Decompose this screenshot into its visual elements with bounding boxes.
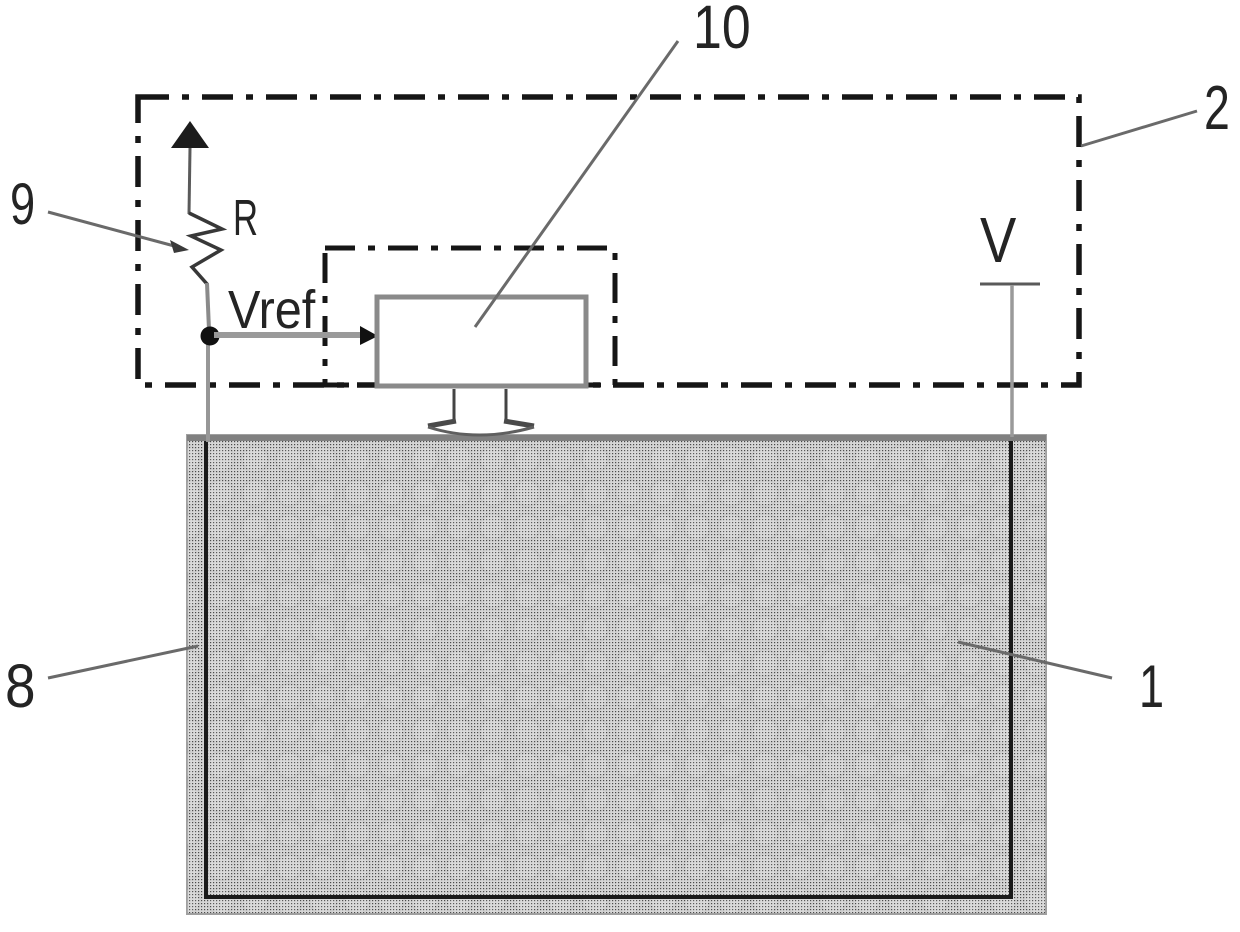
block 10 (driver box) (377, 297, 586, 386)
svg-text:10: 10 (693, 0, 751, 61)
dash-dot enclosure 2 (outer) (138, 97, 1079, 385)
label 10 with leader (475, 0, 751, 327)
svg-text:9: 9 (10, 173, 35, 238)
resistor R (189, 213, 222, 330)
label 8 with leader to panel edge (5, 646, 198, 721)
label 2 with leader (1081, 72, 1230, 146)
svg-text:2: 2 (1204, 72, 1230, 142)
node (junction dot) (201, 327, 220, 346)
up arrow (supply) (171, 121, 209, 214)
substrate panel 1 (halftone body) (187, 435, 1046, 914)
svg-text:8: 8 (5, 652, 36, 720)
wire: node down to panel electrode (206, 336, 210, 442)
svg-text:1: 1 (1139, 654, 1164, 721)
wire Vref with arrowhead into block 10 (214, 326, 378, 345)
label 9 with leader arrow to resistor (10, 173, 189, 253)
svg-text:Vref: Vref (228, 279, 316, 340)
electrode frame 8 (inner black border of panel) (206, 441, 1011, 897)
svg-text:V: V (980, 204, 1017, 276)
label 1 with leader into panel (958, 642, 1164, 721)
dash-dot enclosure (inner, around block 10) (325, 248, 615, 385)
hollow down arrow from block 10 to panel (428, 389, 534, 435)
voltage probe V (980, 204, 1040, 437)
svg-text:R: R (233, 191, 258, 247)
